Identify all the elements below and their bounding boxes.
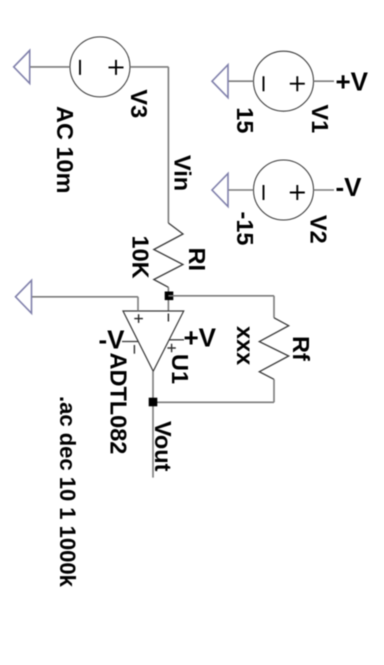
wire output <box>152 371 154 477</box>
svg-text:+V: +V <box>184 323 217 353</box>
svg-text:RI: RI <box>184 248 210 272</box>
svg-text:V1: V1 <box>307 105 333 134</box>
svg-text:V2: V2 <box>306 215 332 244</box>
junction J1 <box>165 292 174 301</box>
svg-text:Vout: Vout <box>150 421 176 472</box>
wire feedback top left <box>273 296 275 318</box>
wire + input down <box>32 296 139 298</box>
wire RI to opamp <box>167 287 169 311</box>
wire input net Vin <box>167 67 169 223</box>
svg-text:10K: 10K <box>128 236 154 279</box>
resistor Rf <box>259 318 288 380</box>
rotated landscape schematic group <box>14 37 334 588</box>
wire V1 bottom <box>228 80 254 82</box>
op-amp V+ pin mark <box>167 344 175 353</box>
svg-text:Vin: Vin <box>170 155 196 191</box>
svg-text:15: 15 <box>232 107 258 133</box>
wire V3 bottom <box>30 66 70 68</box>
ground G1 <box>212 65 228 98</box>
op-amp V- stub <box>122 341 138 343</box>
svg-text:V3: V3 <box>126 89 152 118</box>
wire V3 top <box>130 66 168 68</box>
svg-text:U1: U1 <box>167 354 193 384</box>
ground G2 <box>212 174 228 207</box>
op-amp minus input mark <box>167 314 169 322</box>
svg-text:+V: +V <box>336 67 369 97</box>
op-amp V+ stub <box>169 339 184 341</box>
svg-text:xxx: xxx <box>232 326 258 365</box>
wire + input horizontal <box>137 297 139 311</box>
wire feedback up <box>168 295 274 297</box>
svg-text:Rf: Rf <box>288 336 314 361</box>
svg-text:.ac dec 10 1 1000k: .ac dec 10 1 1000k <box>55 396 80 588</box>
svg-text:-15: -15 <box>232 212 258 246</box>
wire V2 top <box>314 189 335 191</box>
op-amp U1 triangle <box>123 311 184 371</box>
svg-text:-V: -V <box>99 325 126 355</box>
junction J2 <box>149 398 158 407</box>
resistor RI <box>154 223 183 287</box>
voltage source V2 <box>254 160 314 220</box>
ground G3 <box>14 50 30 83</box>
svg-text:-V: -V <box>336 172 363 202</box>
voltage source V3 <box>70 37 130 97</box>
ground G4 <box>16 280 32 313</box>
op-amp V- pin mark <box>133 345 135 354</box>
wire V2 bottom <box>228 189 254 191</box>
svg-text:AC 10m: AC 10m <box>52 106 78 194</box>
wire V1 top <box>314 80 335 82</box>
voltage source V1 <box>254 51 314 111</box>
wire feedback down <box>153 401 274 403</box>
op-amp plus input mark <box>134 314 143 323</box>
svg-text:ADTL082: ADTL082 <box>106 353 132 455</box>
wire feedback top right <box>273 379 275 402</box>
